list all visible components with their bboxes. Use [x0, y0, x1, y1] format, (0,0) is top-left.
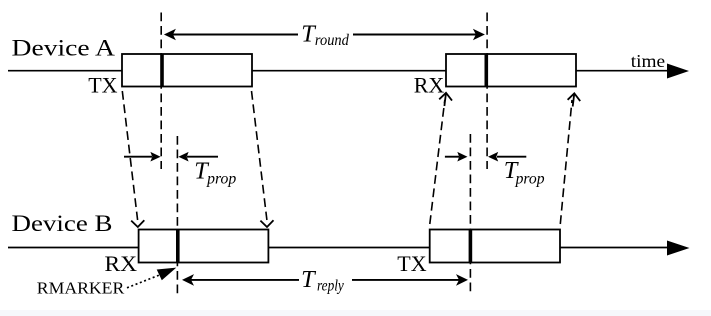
svg-text:TX: TX [88, 73, 117, 98]
svg-text:time: time [631, 51, 665, 71]
svg-text:round: round [315, 32, 349, 49]
svg-text:RMARKER: RMARKER [37, 279, 125, 298]
svg-text:Device B: Device B [12, 211, 113, 237]
svg-text:RX: RX [414, 73, 445, 98]
svg-text:Device A: Device A [12, 36, 116, 62]
svg-text:T: T [301, 266, 316, 293]
svg-text:RX: RX [105, 251, 138, 276]
svg-text:prop: prop [206, 170, 236, 187]
svg-text:reply: reply [317, 277, 344, 294]
svg-text:prop: prop [515, 170, 545, 187]
svg-text:TX: TX [397, 251, 426, 276]
